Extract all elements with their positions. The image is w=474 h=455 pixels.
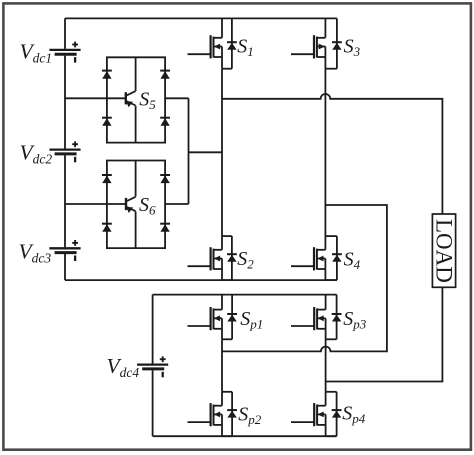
switch S4: [291, 236, 342, 280]
diode D3 (S5 bridge bottom-left): [102, 117, 112, 119]
svg-text:LOAD: LOAD: [431, 219, 456, 283]
wire: Sp leg A (Sp1-Sp2): [221, 339, 223, 392]
wire: S6 right mid node to link: [165, 203, 188, 205]
wire: bottom horizontal from Vdc3 to S2/S4 sources: [65, 279, 337, 281]
diode D7 (S6 bridge bottom-left): [102, 223, 112, 225]
battery Vdc4: [137, 356, 168, 377]
diode D2 (S5 bridge top-right): [160, 70, 170, 72]
wire: bus to S5 base (left mid node): [65, 97, 126, 99]
diode D6 (S6 bridge top-right): [160, 174, 170, 176]
switch Sp3: [291, 295, 342, 340]
switch S1: [188, 18, 237, 68]
wire: top DC rail: [65, 17, 337, 19]
wire: branch from bridges to leg A: [189, 151, 223, 153]
wire: bus to S6 base (left mid node): [65, 203, 126, 205]
switch S3: [291, 18, 342, 68]
LOAD box: [431, 214, 456, 287]
diode D5 (S6 bridge top-left): [102, 174, 112, 176]
wire: Vdc4 bus: [152, 295, 154, 437]
diode D4 (S5 bridge bottom-right): [160, 117, 170, 119]
diode D1 (S5 bridge top-left): [102, 70, 112, 72]
diode D8 (S6 bridge bottom-right): [160, 223, 170, 225]
battery Vdc2: [49, 141, 80, 162]
wire: S5 right mid node to link: [165, 97, 188, 99]
wire: left DC bus: [64, 18, 66, 280]
wire: bridge link vertical: [188, 98, 190, 204]
switch S2: [188, 236, 237, 280]
wire: Sp source bottom rail: [153, 435, 337, 437]
wire: phase A to LOAD top (hop over leg B): [222, 94, 442, 214]
wire: phase C to LOAD bottom: [326, 287, 443, 381]
battery Vdc1: [49, 42, 80, 63]
transistor S5 (bidirectional switch): [126, 57, 136, 142]
switch Sp4: [291, 392, 342, 436]
bridge box of S6: [107, 161, 165, 249]
wire: phase B to Sp1/Sp2 midpoint (hop over Sp leg B): [222, 205, 387, 351]
wire: Sp leg B (Sp3-Sp4): [325, 339, 327, 392]
switch Sp1: [188, 295, 238, 340]
bridge box of S5: [107, 57, 165, 142]
wire: Sp drain rail: [153, 294, 337, 296]
wire: leg B (S3-S4): [324, 69, 326, 236]
transistor S6 (bidirectional switch): [126, 161, 136, 249]
switch Sp2: [188, 392, 238, 436]
battery Vdc3: [49, 240, 80, 261]
wire: leg A (S1-S2): [221, 69, 223, 236]
